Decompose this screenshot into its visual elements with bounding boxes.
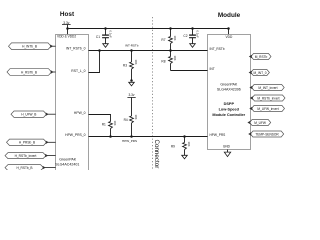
port M_RSTb: [251, 54, 271, 60]
flag arrowheads host side: [50, 45, 53, 48]
svg-text:INT-RSTb: INT-RSTb: [125, 43, 139, 47]
wire H_RSTb_invert stub: [45, 155, 56, 157]
wire RST_L_0 join to INT_RSTb: [89, 51, 100, 73]
node R7 rail junction: [169, 27, 172, 30]
svg-text:C2: C2: [183, 34, 187, 38]
svg-text:SLG4AC42401: SLG4AC42401: [55, 163, 79, 167]
svg-text:Low-Speed: Low-Speed: [219, 108, 240, 112]
svg-text:HPW_PRS: HPW_PRS: [122, 139, 137, 143]
wire R8 to U2 INT: [171, 70, 208, 72]
node INT_RSTb / R7 / R8 junction: [169, 49, 172, 52]
node R4 on HPW_PRS: [130, 135, 133, 138]
port H_RSTb_B bottom: [5, 165, 44, 171]
resistor R9: [171, 137, 191, 156]
svg-text:3.3v: 3.3v: [128, 93, 134, 97]
resistor R1: [102, 121, 117, 137]
svg-text:R1: R1: [102, 123, 106, 127]
svg-text:GreenPAK: GreenPAK: [220, 83, 238, 87]
wire H_INTb_B stub: [50, 45, 56, 47]
ground under C2: [190, 44, 196, 48]
port TEMP-SENSOR: [250, 131, 283, 137]
svg-text:H_INTb_B: H_INTb_B: [22, 45, 37, 49]
svg-text:R7: R7: [161, 38, 165, 42]
svg-text:H_UFW_B: H_UFW_B: [21, 113, 36, 117]
svg-text:SLG4AX42396: SLG4AX42396: [217, 87, 241, 91]
svg-text:GreenPAK: GreenPAK: [59, 158, 77, 162]
svg-text:H_RSTb_B: H_RSTb_B: [16, 166, 32, 170]
svg-text:INT: INT: [210, 67, 215, 71]
port H_RSTb_B: [7, 69, 52, 76]
svg-text:10K: 10K: [134, 115, 138, 120]
port H_PRSb_B: [7, 139, 47, 145]
node R9 on HPW_PRS: [183, 135, 186, 138]
svg-text:VDD & VDD2: VDD & VDD2: [57, 35, 76, 39]
wire H_UFW_B stub: [43, 113, 56, 115]
wire U2 GND drop: [227, 150, 229, 153]
svg-text:H_PRSb_B: H_PRSb_B: [19, 141, 35, 145]
svg-text:10K: 10K: [113, 121, 117, 126]
port M_INT_invert: [252, 85, 285, 91]
svg-text:M_UFW_invert: M_UFW_invert: [257, 107, 278, 111]
svg-text:RST_L_0: RST_L_0: [71, 69, 85, 73]
capacitor C2: [183, 29, 199, 44]
svg-text:0.1uF: 0.1uF: [109, 31, 113, 38]
node C2 rail junction: [191, 27, 194, 30]
svg-text:R9: R9: [171, 144, 175, 148]
ground under R9: [182, 155, 188, 159]
svg-text:DSPP: DSPP: [224, 102, 235, 106]
svg-text:INT_RSTb_0: INT_RSTb_0: [66, 47, 86, 51]
port H_RSTb_invert: [5, 153, 46, 159]
node host 3.3v rail junction: [66, 27, 69, 30]
node R3 top junction: [130, 49, 133, 52]
svg-text:10K: 10K: [173, 56, 177, 61]
ground under C1: [103, 44, 109, 48]
svg-text:R4: R4: [124, 118, 128, 122]
port M_RSTb_invert: [252, 95, 285, 101]
svg-text:M_INT_0: M_INT_0: [253, 71, 266, 75]
port H_INTb_B: [9, 43, 52, 50]
wire net HPW_PRS: [89, 136, 208, 138]
ground under R3: [129, 82, 135, 86]
node R1 on HPW_PRS: [109, 135, 112, 138]
svg-text:10K: 10K: [187, 142, 191, 147]
wire H_PRSb_B stub: [44, 141, 56, 143]
svg-text:HPW_PRS: HPW_PRS: [210, 133, 226, 137]
wire net INT_RSTb: [89, 50, 208, 52]
power label 3.3v (R4 pull-up): [127, 93, 135, 97]
IC U1 GreenPAK SLG4AC42401: [55, 35, 88, 172]
port M_INT_0: [251, 70, 270, 76]
svg-text:M_INT_invert: M_INT_invert: [258, 86, 277, 90]
svg-text:HPW_PRS_0: HPW_PRS_0: [65, 133, 85, 137]
ground under U2 GND: [224, 152, 230, 157]
svg-text:GND: GND: [223, 144, 231, 148]
svg-text:10K: 10K: [134, 60, 138, 65]
svg-text:INT_RSTb: INT_RSTb: [210, 47, 225, 51]
port M_UFW: [250, 120, 271, 126]
svg-text:C1: C1: [96, 35, 100, 39]
wire H_RSTb_B stub: [50, 71, 56, 73]
svg-text:Host: Host: [60, 11, 75, 18]
node R3 bottom: [130, 79, 133, 82]
node rail end at U2 VDD: [227, 27, 230, 30]
svg-text:0.1uF: 0.1uF: [196, 31, 200, 38]
node C1 rail junction: [104, 27, 107, 30]
svg-text:10K: 10K: [173, 36, 177, 41]
wire 3.3v drop to U1 VDD: [67, 25, 69, 35]
svg-text:M_RSTb: M_RSTb: [255, 55, 268, 59]
svg-text:H_RSTb_B: H_RSTb_B: [21, 70, 37, 74]
resistor R4: [124, 98, 138, 137]
svg-text:R8: R8: [161, 59, 165, 63]
IC U2 GreenPAK SLG4AX42396: [208, 35, 251, 150]
wire 3.3v rail: [68, 28, 229, 30]
port H_UFW_B: [11, 111, 47, 117]
resistor R8: [161, 51, 177, 71]
flag arrowheads module side: [249, 55, 252, 58]
connector boundary (dashed): [152, 17, 154, 170]
svg-text:Connector: Connector: [153, 140, 160, 169]
wire HPW_0 to R1: [89, 115, 111, 122]
node RST_L join: [98, 49, 101, 52]
port M_UFW_invert: [252, 106, 285, 112]
svg-text:R3: R3: [123, 63, 127, 67]
wire VDD drop into U2: [228, 29, 230, 35]
svg-text:Module Controller: Module Controller: [212, 113, 245, 117]
svg-text:VDD: VDD: [226, 35, 233, 39]
svg-text:TEMP-SENSOR: TEMP-SENSOR: [255, 132, 279, 136]
svg-text:HPW_0: HPW_0: [74, 111, 86, 115]
capacitor C1: [96, 29, 113, 44]
svg-text:M_RSTb_invert: M_RSTb_invert: [257, 96, 279, 100]
power label 3.3v (host): [62, 21, 71, 25]
resistor R3: [123, 51, 138, 81]
svg-text:Module: Module: [218, 12, 241, 19]
resistor R7: [161, 29, 177, 51]
svg-text:H_RSTb_invert: H_RSTb_invert: [15, 154, 37, 158]
wire H_RSTb_B bottom stub: [42, 167, 56, 169]
svg-text:M_UFW: M_UFW: [254, 121, 266, 125]
